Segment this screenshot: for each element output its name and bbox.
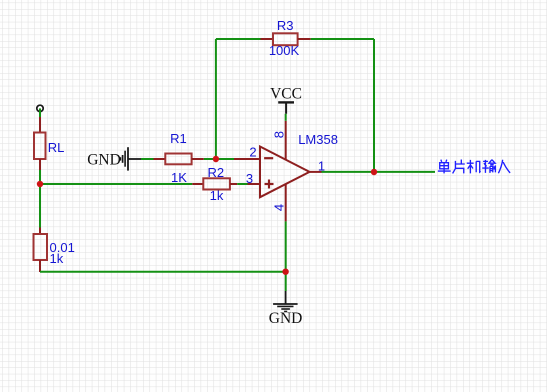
svg-text:1k: 1k [210,188,224,203]
wire [40,183,192,185]
wire [39,108,41,117]
wire [204,158,234,160]
resistor R2 [192,178,237,189]
svg-text:VCC: VCC [270,86,302,103]
port P1 (open input terminal) [37,105,43,111]
wire [216,38,261,40]
net label 单片机输入 (MCU input) [438,160,510,174]
junction (output node) [371,169,377,175]
svg-text:GND: GND [269,310,303,327]
svg-text:1K: 1K [171,170,187,185]
wire [237,183,247,185]
svg-text:R1: R1 [170,131,187,146]
junction (ground node) [282,269,288,275]
wire [285,221,287,291]
wire [285,114,287,121]
svg-text:2: 2 [249,145,256,160]
wire [322,171,436,173]
svg-text:R2: R2 [207,165,224,180]
ground GND (left, at R1 input) [120,147,141,170]
junction (RL / R2 / sense node) [37,181,43,187]
svg-text:100K: 100K [269,43,300,58]
ground GND (bottom) [273,291,298,312]
svg-text:8: 8 [272,131,287,138]
svg-text:4: 4 [272,204,287,211]
power VCC [278,102,294,113]
resistor R1 [154,154,204,165]
resistor RL [34,117,46,170]
svg-text:3: 3 [246,171,253,186]
junction (inverting input node) [213,156,219,162]
svg-text:RL: RL [48,140,65,155]
wire [215,39,217,159]
svg-text:R3: R3 [277,18,294,33]
op-amp U1 LM358 [234,121,322,222]
wire [39,184,41,228]
svg-text:GND: GND [87,152,121,169]
wire [39,170,41,184]
wire [311,38,374,40]
svg-text:1k: 1k [50,251,64,266]
svg-text:LM358: LM358 [298,132,338,147]
resistor R3 [261,33,311,45]
wire [373,39,375,172]
wire [141,158,154,160]
resistor R4 (0.01 / 1k shunt) [34,228,48,273]
wire [40,271,286,273]
